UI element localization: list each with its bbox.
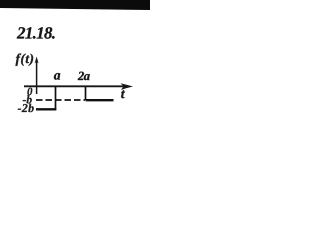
x-axis [24, 85, 127, 87]
function segment at -b (t > 2a) [86, 99, 114, 101]
y-axis arrowhead [35, 57, 39, 64]
axis label f(t) [16, 54, 34, 66]
function segment at -2b (0 to a) [36, 108, 56, 110]
jump vertical at t=2a [85, 87, 87, 100]
problem number 21.18. [17, 27, 55, 39]
tick label a [54, 73, 60, 80]
t label [121, 90, 125, 98]
level label -b [23, 95, 32, 103]
top black band [0, 0, 150, 10]
x-axis arrowhead [121, 83, 134, 90]
dashed guideline at level -b [36, 99, 85, 101]
jump vertical at t=a [55, 87, 57, 111]
level label -2b [18, 104, 34, 112]
origin label 0 [27, 88, 32, 95]
tick label 2a [78, 72, 90, 80]
page background [0, 0, 150, 150]
y-axis [36, 60, 38, 94]
